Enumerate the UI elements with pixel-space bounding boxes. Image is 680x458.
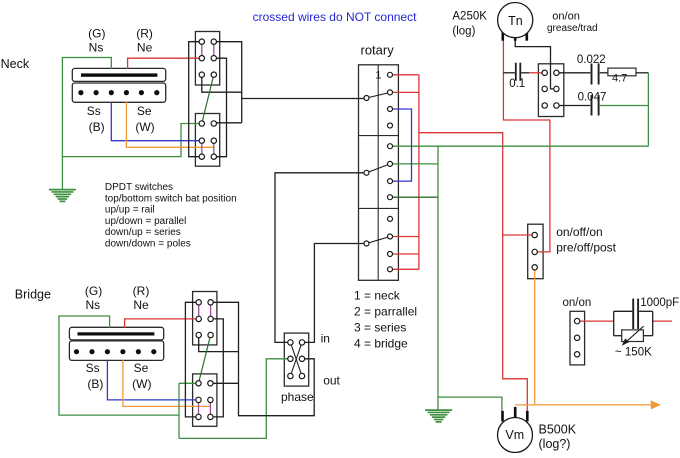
svg-text:DPDT switches: DPDT switches bbox=[105, 182, 173, 193]
svg-text:Vm: Vm bbox=[505, 428, 524, 442]
svg-text:2 = parrallel: 2 = parrallel bbox=[354, 305, 417, 319]
svg-text:phase: phase bbox=[281, 390, 314, 404]
svg-text:Ns: Ns bbox=[89, 41, 104, 55]
svg-text:0.047: 0.047 bbox=[578, 92, 607, 104]
svg-text:(B): (B) bbox=[89, 120, 105, 134]
svg-text:1 = neck: 1 = neck bbox=[354, 289, 401, 303]
svg-text:(B): (B) bbox=[87, 377, 103, 391]
svg-text:(W): (W) bbox=[132, 377, 151, 391]
svg-text:rotary: rotary bbox=[361, 43, 395, 58]
svg-text:top/bottom switch bat position: top/bottom switch bat position bbox=[105, 193, 237, 204]
svg-text:pre/off/post: pre/off/post bbox=[556, 241, 616, 255]
svg-text:~ 150K: ~ 150K bbox=[615, 347, 652, 359]
svg-text:(log?): (log?) bbox=[539, 437, 571, 451]
svg-text:3 = series: 3 = series bbox=[354, 321, 406, 335]
svg-text:Ss: Ss bbox=[86, 361, 100, 375]
svg-text:Tn: Tn bbox=[508, 14, 523, 28]
svg-text:up/down = parallel: up/down = parallel bbox=[105, 216, 186, 227]
svg-text:down/down = poles: down/down = poles bbox=[105, 239, 191, 250]
svg-text:Se: Se bbox=[134, 361, 149, 375]
svg-text:(W): (W) bbox=[135, 120, 154, 134]
svg-text:B500K: B500K bbox=[539, 423, 577, 437]
svg-text:1000pF: 1000pF bbox=[640, 297, 679, 309]
svg-text:4 = bridge: 4 = bridge bbox=[354, 336, 408, 350]
svg-text:on/on: on/on bbox=[552, 10, 580, 22]
svg-text:Ne: Ne bbox=[133, 298, 149, 312]
svg-text:Ne: Ne bbox=[137, 41, 153, 55]
svg-text:Se: Se bbox=[137, 104, 152, 118]
svg-text:(log): (log) bbox=[452, 26, 475, 38]
svg-text:A250K: A250K bbox=[452, 10, 487, 22]
svg-text:4.7: 4.7 bbox=[612, 73, 627, 85]
svg-text:0.1: 0.1 bbox=[509, 78, 525, 90]
svg-text:1: 1 bbox=[375, 70, 381, 82]
svg-text:down/up = series: down/up = series bbox=[105, 227, 181, 238]
svg-text:on/off/on: on/off/on bbox=[556, 225, 603, 239]
svg-text:in: in bbox=[321, 331, 330, 345]
svg-text:Ss: Ss bbox=[87, 104, 101, 118]
svg-text:Neck: Neck bbox=[1, 57, 30, 71]
svg-text:Bridge: Bridge bbox=[15, 288, 51, 302]
svg-text:crossed wires do NOT connect: crossed wires do NOT connect bbox=[253, 10, 418, 24]
svg-text:(G): (G) bbox=[85, 284, 102, 298]
svg-text:on/on: on/on bbox=[563, 297, 592, 309]
svg-text:grease/trad: grease/trad bbox=[547, 23, 598, 34]
svg-text:out: out bbox=[323, 374, 340, 388]
svg-text:0.022: 0.022 bbox=[577, 54, 606, 66]
svg-text:(R): (R) bbox=[136, 27, 153, 41]
svg-text:up/up = rail: up/up = rail bbox=[105, 205, 155, 216]
svg-text:(R): (R) bbox=[133, 284, 150, 298]
svg-text:Ns: Ns bbox=[85, 298, 100, 312]
svg-text:(G): (G) bbox=[88, 27, 105, 41]
